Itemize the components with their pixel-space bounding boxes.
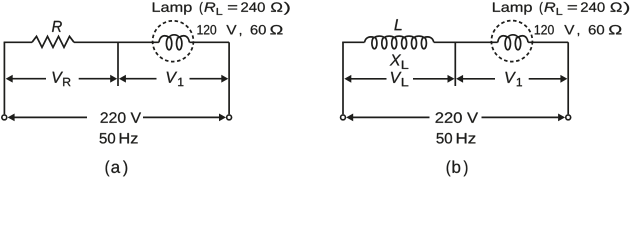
- terminal: circuit (b) bottom-right: [566, 115, 571, 120]
- terminal: circuit (a) bottom-right: [227, 115, 232, 120]
- label: V_R: [53, 72, 71, 86]
- label: 220 V (a): [101, 112, 141, 123]
- arrowhead: V_L left: [344, 75, 351, 83]
- terminal: circuit (b) bottom-left: [341, 115, 346, 120]
- wire: circuit (b) right rail: [567, 42, 569, 114]
- terminal: circuit (a) bottom-left: [2, 115, 7, 120]
- arrowhead: 220 V (b) left: [346, 114, 353, 122]
- label: Lamp (R_L = 240 ohm) for (b): [493, 2, 629, 15]
- wire: circuit (b) top wire left lead: [342, 41, 364, 43]
- label: 120 V, 60 ohm for (b): [535, 25, 622, 36]
- wire: circuit (a) top wire right: [189, 41, 229, 43]
- label: 50 Hz (a): [100, 133, 138, 144]
- wire: V_L dimension shafts: [351, 78, 448, 80]
- inductor L: [365, 36, 434, 49]
- label: V_1 (a): [167, 72, 184, 86]
- wire: 220 V (b) bottom dimension shafts: [353, 116, 558, 118]
- label: X_L: [390, 55, 409, 69]
- arrowhead: 220 V (a) left: [8, 114, 15, 122]
- wire: circuit (a) top wire middle: [74, 41, 159, 43]
- arrowhead: V_L right: [448, 75, 455, 83]
- wire: V_R dimension shafts: [13, 78, 111, 80]
- node: circuit (b) mid divider: [454, 42, 456, 86]
- label: R: [52, 21, 62, 32]
- lamp dashed circle (a): [153, 21, 194, 62]
- lamp filament coil (b): [498, 35, 528, 50]
- arrowhead: V_R left: [6, 75, 13, 83]
- wire: circuit (b) top wire right: [528, 41, 568, 43]
- arrowhead: V_1 (b) right: [560, 75, 567, 83]
- label: L: [394, 19, 401, 30]
- wire: V_1 (b) dimension shafts: [463, 78, 561, 80]
- lamp dashed circle (b): [491, 21, 532, 62]
- arrowhead: V_1 (a) left: [119, 75, 126, 83]
- wire: circuit (b) left rail: [342, 42, 344, 114]
- label: V_L: [391, 72, 408, 86]
- label: Lamp (R_L = 240 ohm) for (a): [153, 2, 290, 15]
- arrowhead: 220 V (a) right: [219, 114, 226, 122]
- wire: 220 V (a) bottom dimension shafts: [14, 116, 219, 118]
- resistor R: [32, 36, 74, 47]
- wire: V_1 (a) dimension shafts: [126, 78, 222, 80]
- lamp filament coil (a): [159, 35, 190, 50]
- arrowhead: 220 V (b) right: [558, 114, 565, 122]
- label: V_1 (b): [505, 72, 522, 86]
- wire: circuit (a) left rail: [3, 42, 5, 114]
- label: 120 V, 60 ohm for (a): [198, 25, 283, 36]
- arrowhead: V_1 (a) right: [221, 75, 228, 83]
- label: (b): [447, 161, 468, 177]
- node: circuit (a) mid divider: [117, 42, 119, 86]
- label: (a): [106, 161, 128, 177]
- label: 50 Hz (b): [437, 133, 476, 144]
- wire: circuit (a) right rail: [228, 42, 230, 114]
- wire: circuit (a) top wire left lead: [4, 41, 32, 43]
- arrowhead: V_R right: [110, 75, 117, 83]
- label: 220 V (b): [436, 112, 478, 123]
- wire: circuit (b) top wire middle: [434, 41, 498, 43]
- arrowhead: V_1 (b) left: [456, 75, 463, 83]
